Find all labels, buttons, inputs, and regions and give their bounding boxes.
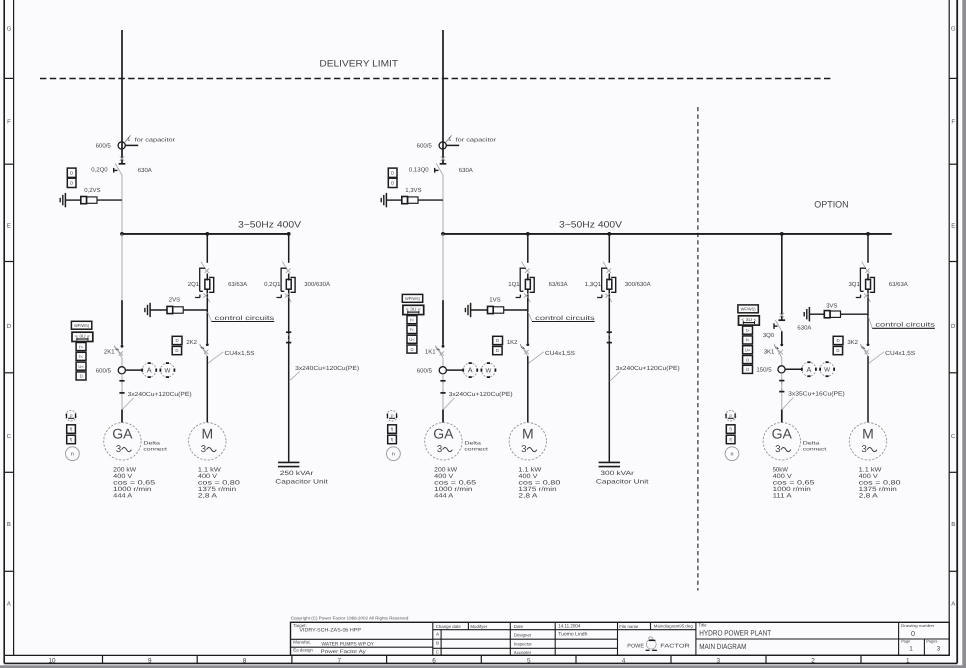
relay function box <3U< [72,332,93,341]
current transformer 600/5 [118,367,125,374]
svg-text:3x240Cu+120Cu(PE): 3x240Cu+120Cu(PE) [128,391,192,398]
svg-text:D: D [391,180,394,185]
svg-text:9: 9 [148,657,152,664]
svg-text:3: 3 [437,444,443,455]
svg-text:Maindiagram95.deg: Maindiagram95.deg [654,624,694,629]
svg-text:1: 1 [909,645,913,652]
svg-text:P: P [70,413,73,418]
svg-text:10: 10 [48,657,56,664]
surge/voltage unit 1VS [470,303,472,317]
wire - cable to generator [781,410,783,423]
DELIVERY LIMIT boundary dashed line [40,78,832,80]
svg-text:f>: f> [746,328,750,333]
svg-text:Ea design: Ea design [293,648,313,653]
wire - contactor to CT [121,358,123,367]
svg-text:VIDRY-SCH-ZAS-0b HPP: VIDRY-SCH-ZAS-0b HPP [299,627,361,633]
node - busbar junction at x=443 [441,232,445,236]
svg-text:0,13Q0: 0,13Q0 [409,167,429,174]
svg-text:G: G [951,26,956,33]
leader to terminal 1 for capacitor [445,135,451,143]
svg-text:WATER PUMPS WP OY: WATER PUMPS WP OY [322,642,375,648]
wire - cable to generator [121,410,123,423]
ammeter A [142,363,156,377]
busbar section 3-5 (3~50Hz 400V) [443,233,892,235]
wattmeter W [820,362,834,376]
frame bottom inner border [4,654,949,656]
wire - disconnector to contactor 3K1 [781,331,783,343]
svg-text:CU4x1,5S: CU4x1,5S [885,350,915,357]
svg-text:for capacitor: for capacitor [456,137,497,143]
svg-text:600/5: 600/5 [417,367,433,374]
transducer box f( [388,435,397,444]
svg-text:W: W [164,368,170,375]
svg-text:A: A [436,632,439,637]
surge/voltage unit 2VS [149,303,151,317]
relay function box f> [743,326,753,334]
wire - contactor to CT [442,358,444,367]
svg-text:63/63A: 63/63A [889,281,908,288]
svg-text:Designer: Designer [514,632,532,637]
svg-text:5: 5 [527,657,531,664]
capacitor unit 250 kVAr [278,461,299,463]
svg-text:Tuomo Lindh: Tuomo Lindh [558,632,587,638]
svg-text:1Q1: 1Q1 [508,281,520,288]
power transducer P [725,410,736,421]
svg-text:1K1: 1K1 [425,349,436,356]
wire - busbar drop to breaker 1,3Q1 [608,234,610,263]
svg-text:D: D [837,338,840,343]
relay function box U< [743,346,753,354]
svg-text:A: A [147,366,152,375]
contactor 2K1 [121,345,124,348]
svg-text:3Q1: 3Q1 [848,281,860,288]
frame outer left border [3,0,5,663]
frame bottom outer border [4,662,957,664]
screenshot bottom edge band [0,665,966,668]
wire - CT to generator cable [442,374,444,410]
node - busbar junction at x=868.0 [866,232,870,236]
node - busbar junction at x=527.8 [526,232,530,236]
svg-text:3x240Cu+120Cu(PE): 3x240Cu+120Cu(PE) [616,365,680,372]
node - busbar junction at x=122 [120,232,124,236]
current transformer 150/5 [778,366,785,373]
svg-text:connect: connect [803,446,827,451]
svg-text:3x240Cu+120Cu(PE): 3x240Cu+120Cu(PE) [295,365,359,372]
wire - CT to ammeter [446,369,463,371]
leader line for cable label [122,398,133,410]
contactor 3K1 [780,343,783,346]
svg-text:300/630A: 300/630A [304,281,330,288]
svg-text:Delta: Delta [464,441,481,446]
leader line for cable label [443,398,454,410]
svg-text:F: F [951,119,955,126]
wire - CT to ammeter [785,368,802,370]
svg-text:Change date: Change date [436,624,462,629]
svg-text:111 A: 111 A [773,493,793,500]
leader - control circuits [528,312,532,321]
svg-text:D: D [410,347,413,352]
svg-text:A: A [7,601,11,608]
transducer box f) [388,425,397,434]
svg-text:2,8 A: 2,8 A [198,493,218,500]
svg-text:Delta: Delta [143,441,160,446]
svg-text:3: 3 [775,444,781,455]
wire - busbar to generator switchgear [442,234,444,300]
svg-text:for capacitor: for capacitor [135,137,176,143]
svg-text:3x35Cu+16Cu(PE): 3x35Cu+16Cu(PE) [788,390,845,397]
svg-text:D: D [496,348,499,353]
wire - incoming feeder at x=443 [442,30,444,164]
svg-text:Modifyer: Modifyer [470,624,487,629]
surge/voltage unit 3VS [808,307,810,321]
svg-text:2K1: 2K1 [104,349,115,356]
svg-text:3x240Cu+120Cu(PE): 3x240Cu+120Cu(PE) [449,391,513,398]
wattmeter W [481,363,495,377]
svg-text:E: E [951,223,955,230]
wattmeter W [160,363,174,377]
svg-text:n: n [731,452,734,458]
leader line for cable label [528,352,543,364]
svg-text:F: F [7,119,11,126]
leader - control circuits [208,312,212,321]
svg-text:connect: connect [464,446,488,451]
svg-text:D: D [496,338,499,343]
svg-text:6: 6 [432,657,436,664]
cable marker 3x240Cu+120Cu(PE) [286,331,291,333]
OPTION boundary dashed line [697,107,699,591]
wire - breaker to contactor [867,298,869,344]
svg-text:f>: f> [410,317,414,322]
current transformer 600/5 (feeder) [118,142,125,149]
svg-text:0: 0 [911,629,915,638]
svg-text:Capacitor Unit: Capacitor Unit [596,479,649,486]
svg-text:630A: 630A [138,167,152,174]
svg-text:n: n [392,452,395,458]
relay function box WF/WS [402,294,422,302]
svg-text:Accepter: Accepter [514,650,532,655]
svg-text:3: 3 [861,444,867,455]
svg-text:C: C [951,433,956,440]
svg-text:250 kVAr: 250 kVAr [280,470,314,477]
leader line for cable label [289,371,300,381]
frame inner right border [948,0,950,655]
cable marker 3x35Cu+16Cu(PE) [779,380,784,382]
node - busbar junction at x=207.3 [205,232,209,236]
annunciator boxes D D for 3K2 [833,336,843,344]
leader - control circuits [868,316,872,328]
screenshot right edge band [962,0,966,668]
svg-text:3: 3 [937,645,941,652]
transducer box f) [67,425,76,434]
motor M 3~ [849,423,886,460]
svg-text:300/630A: 300/630A [625,281,651,288]
contactor 1K1 [442,345,445,348]
wire - CT to ammeter [125,369,142,371]
svg-text:1: 1 [127,137,130,143]
svg-text:D: D [746,367,749,372]
frame outer right border [956,0,958,663]
svg-text:GA: GA [112,426,133,442]
svg-text:D: D [391,170,394,175]
svg-text:Pages: Pages [926,639,937,644]
wire - breaker to contactor [527,298,529,344]
svg-text:3: 3 [116,444,122,455]
svg-text:3: 3 [717,657,721,664]
relay function box f< [76,352,86,360]
svg-text:D: D [70,180,73,185]
transducer box f( [67,435,76,444]
svg-text:E: E [7,223,11,230]
svg-text:C: C [436,650,439,655]
wire - CT to generator cable [121,374,123,410]
leader line for cable label [782,397,793,409]
svg-text:3VS: 3VS [826,303,837,310]
ammeter A [802,362,816,376]
svg-text:G: G [7,26,12,33]
circuit breaker 1,3Q1 (300/630A) [603,262,606,267]
title block horizontal dividers [291,638,433,640]
relay function box WF/WS [738,305,758,313]
svg-text:f<: f< [79,354,83,359]
svg-text:2Q1: 2Q1 [188,281,200,288]
svg-text:CU4x1,5S: CU4x1,5S [225,350,255,357]
wire - incoming feeder at x=122 [121,30,123,164]
wire - contactor to motor [206,356,208,423]
svg-text:600/5: 600/5 [96,143,112,150]
relay function box D [743,365,753,373]
relay function box D [743,356,753,364]
leader line for cable label [208,352,223,364]
relay function box D [407,345,417,353]
svg-text:1: 1 [448,137,451,143]
title block vertical dividers [432,622,434,655]
circuit breaker 0,2Q1 (300/630A) [282,262,285,267]
relay function box D [76,372,86,380]
relay function box WF/WS [71,321,91,329]
svg-text:D: D [836,348,839,353]
annunciator boxes D D [388,168,397,177]
svg-text:Manufac.: Manufac. [293,639,311,644]
svg-text:4: 4 [622,657,626,664]
svg-text:3K1: 3K1 [764,349,775,356]
svg-text:control circuits: control circuits [215,315,275,322]
wire - contactor to motor [527,356,529,423]
conductor marks above disconnector [441,156,445,160]
svg-text:63/63A: 63/63A [228,281,247,288]
svg-text:W: W [485,368,491,375]
svg-text:D: D [176,338,179,343]
svg-text:B: B [436,641,439,646]
wire - contactor to CT [781,358,783,366]
svg-text:630A: 630A [797,324,811,331]
svg-text:600/5: 600/5 [96,367,112,374]
svg-text:8: 8 [243,657,247,664]
speed transducer n [725,447,739,461]
relay function box f> [76,343,86,351]
bottom ruler column dividers [102,655,104,663]
svg-text:B: B [951,521,955,528]
svg-text:7: 7 [338,657,342,664]
svg-text:M: M [862,426,874,442]
svg-text:2K2: 2K2 [186,339,197,346]
wire - breaker to capacitor [608,298,610,462]
svg-text:D: D [746,357,749,362]
svg-text:POWE: POWE [627,643,644,649]
svg-text:0,2Q0: 0,2Q0 [91,167,108,174]
svg-text:3: 3 [521,444,527,455]
relay function box U< [76,362,86,370]
relay function box <3U< [739,316,760,325]
leader line for cable label [869,352,884,364]
svg-text:WF/WS): WF/WS) [74,323,90,328]
svg-text:U<: U< [78,364,84,369]
svg-text:150/5: 150/5 [756,367,772,374]
svg-text:Title: Title [698,623,707,628]
svg-text:2: 2 [811,657,815,664]
svg-text:444 A: 444 A [113,493,133,500]
wire - cable to generator [442,410,444,423]
svg-text:B: B [7,521,11,528]
generator GA 3~ [104,423,141,460]
wire - busbar to disconnector 3Q0 [781,234,783,320]
conductor marks above 3Q0 [780,313,784,317]
svg-text:1K2: 1K2 [507,339,518,346]
svg-text:A: A [807,365,812,374]
node - busbar junction at x=609.3 [607,232,611,236]
svg-text:f>: f> [79,344,83,349]
svg-text:connect: connect [143,446,167,451]
cable marker 3x240Cu+120Cu(PE) [607,331,612,333]
svg-text:D: D [175,348,178,353]
svg-text:Date: Date [514,624,524,629]
leader line for cable label [610,371,621,381]
relay function box f> [407,316,417,324]
svg-text:Page: Page [901,639,910,644]
disconnector 0,13Q0 (630A) [440,163,447,165]
wire - contactor to motor [867,356,869,423]
svg-text:2,8 A: 2,8 A [518,493,538,500]
relay function box f< [743,336,753,344]
title block outer frame [291,622,950,655]
svg-text:A: A [468,366,473,375]
relay function box <3U< [403,305,424,314]
svg-text:D: D [80,374,83,379]
current transformer 600/5 (feeder) [439,142,446,149]
cable marker 3x240Cu+120Cu(PE) [119,380,124,382]
svg-text:14.11.2004: 14.11.2004 [558,623,580,629]
transducer box f) [726,425,735,434]
wire - CT to generator cable [781,373,783,410]
svg-text:control circuits: control circuits [535,315,595,322]
node - busbar junction at x=288.7 [287,232,291,236]
motor M 3~ [509,423,546,460]
svg-text:D: D [70,170,73,175]
svg-text:2VS: 2VS [169,297,180,304]
disconnector 0,2Q0 (630A) [119,163,126,165]
busbar section 1-2 (3~50Hz 400V) [122,233,289,235]
power transducer P [387,410,398,421]
circuit breaker 1Q1 (63/63A) [522,262,525,267]
contactor 3K2 [867,343,870,346]
svg-text:D: D [951,323,956,330]
svg-text:1: 1 [906,657,910,664]
svg-text:2,8 A: 2,8 A [859,493,879,500]
svg-text:CU4x1,5S: CU4x1,5S [545,350,575,357]
capacitor unit 300 kVAr [599,461,620,463]
svg-text:600/5: 600/5 [417,143,433,150]
svg-text:D: D [7,323,12,330]
wire - breaker to capacitor [288,298,290,462]
svg-text:U<: U< [745,348,751,353]
contactor 2K2 [206,343,209,346]
cable marker 3x240Cu+120Cu(PE) [440,380,445,382]
svg-text:Capacitor Unit: Capacitor Unit [275,479,328,486]
svg-text:f<: f< [410,327,414,332]
svg-text:1VS: 1VS [489,297,500,304]
wire - disconnector to busbar [442,175,444,234]
svg-text:WF/WS): WF/WS) [405,296,421,301]
wire - busbar drop to breaker 3Q1 [867,234,869,263]
svg-text:300 kVAr: 300 kVAr [600,470,634,477]
svg-text:File name: File name [619,624,639,629]
node - busbar junction at x=781.8 [780,232,784,236]
svg-text:HYDRO POWER PLANT: HYDRO POWER PLANT [699,628,771,637]
svg-text:63/63A: 63/63A [549,281,568,288]
svg-text:1,3Q1: 1,3Q1 [585,281,602,288]
generator GA 3~ [425,423,462,460]
svg-text:Copyright (C) Power Factor 196: Copyright (C) Power Factor 1968-2002 All… [291,615,409,620]
svg-text:3~50Hz 400V: 3~50Hz 400V [238,219,302,229]
svg-text:control circuits: control circuits [875,322,935,329]
svg-text:Drawing number: Drawing number [901,623,935,628]
conductor marks above disconnector [120,156,124,160]
svg-text:WF/WS): WF/WS) [741,307,757,312]
wire - busbar to generator switchgear [121,234,123,300]
current transformer 600/5 [439,367,446,374]
speed transducer n [387,447,401,461]
annunciator boxes D D for 2K2 [172,336,182,344]
svg-text:630A: 630A [459,167,473,174]
svg-text:FACTOR: FACTOR [660,643,690,649]
wire - busbar drop to breaker 2Q1 [206,234,208,263]
annunciator boxes D D [67,168,76,177]
svg-text:Delta: Delta [803,441,820,446]
svg-text:GA: GA [772,426,793,442]
svg-text:M: M [201,426,213,442]
svg-text:A: A [951,601,955,608]
svg-text:3K2: 3K2 [847,339,858,346]
svg-text:Power Factor Ay: Power Factor Ay [321,649,367,655]
svg-text:C: C [7,433,12,440]
svg-text:DELIVERY LIMIT: DELIVERY LIMIT [319,59,398,69]
svg-text:U<: U< [409,337,415,342]
wire - busbar drop to breaker 1Q1 [527,234,529,263]
surge/voltage unit 0,2VS [64,193,66,207]
contactor 1K2 [526,343,529,346]
svg-text:3: 3 [201,444,207,455]
disconnector 3Q0 (630A) [779,319,786,321]
circuit breaker 2Q1 (63/63A) [201,262,204,267]
svg-text:n: n [71,452,74,458]
wire - busbar drop to breaker 0,2Q1 [288,234,290,263]
svg-text:MAIN DIAGRAM: MAIN DIAGRAM [699,642,746,651]
ammeter A [463,363,477,377]
annunciator boxes D D for 1K2 [493,336,503,344]
svg-text:M: M [522,426,534,442]
relay function box f< [407,325,417,333]
svg-text:444 A: 444 A [434,493,454,500]
svg-text:OPTION: OPTION [814,200,848,210]
